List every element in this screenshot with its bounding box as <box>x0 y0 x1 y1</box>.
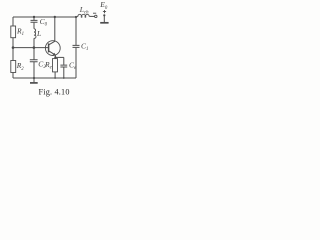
wire left rail middle <box>12 38 14 61</box>
wire right rail upper <box>75 17 77 45</box>
transistor Q1 emitter arrow <box>53 53 56 56</box>
junction node base-L <box>33 46 36 49</box>
supply ground bar <box>100 22 108 24</box>
wire top rail <box>13 16 76 18</box>
transistor Q1 base bar <box>48 43 50 52</box>
ground stub <box>33 78 35 82</box>
minus sign <box>93 12 96 14</box>
wire Re to bottom rail <box>54 72 56 78</box>
supply wire down <box>103 15 105 22</box>
capacitor C0 <box>31 20 38 22</box>
junction node C0 top <box>33 16 35 18</box>
capacitor Ce <box>60 65 67 67</box>
wire base <box>13 47 48 49</box>
ground bar <box>30 82 38 84</box>
resistor Re <box>53 59 58 72</box>
svg-text:L: L <box>36 29 41 38</box>
wire right rail lower <box>75 48 77 78</box>
svg-text:Fig. 4.10: Fig. 4.10 <box>39 87 70 96</box>
wire Ce branch upper <box>63 57 65 64</box>
junction node right rail top <box>75 16 77 18</box>
wire emitter to Re <box>54 57 56 58</box>
transistor Q1 emitter <box>49 51 56 58</box>
resistor R2 <box>11 61 16 73</box>
wire Ce to bottom rail <box>63 67 65 78</box>
plus sign <box>103 10 106 13</box>
wire bottom rail <box>13 77 76 79</box>
junction node emitter <box>54 56 56 58</box>
junction node Ce bottom <box>63 77 65 79</box>
wire choke to terminal <box>89 15 94 17</box>
wire emitter junction to Ce <box>55 56 64 58</box>
inductor Lch choke <box>77 14 90 17</box>
wire collector <box>49 17 55 45</box>
wire C0 to L <box>33 23 35 29</box>
wire C2 to bottom rail <box>33 62 35 78</box>
capacitor C2 <box>30 60 38 62</box>
terminal minus circle <box>95 15 97 17</box>
wire left rail lower <box>12 73 14 79</box>
resistor R1 <box>11 26 16 38</box>
supply terminal dot <box>103 14 105 16</box>
capacitor C1 <box>73 45 80 47</box>
junction node base-left <box>12 46 15 49</box>
wire left rail upper <box>12 17 14 26</box>
junction node Re bottom <box>54 77 56 79</box>
junction node collector top <box>54 16 56 18</box>
inductor L <box>34 29 36 39</box>
junction node C2 bottom <box>33 77 35 79</box>
wire base to C2 <box>33 48 35 60</box>
transistor Q1 circle <box>45 41 60 56</box>
wire L to base wire <box>33 38 35 47</box>
wire C0 branch top stub <box>33 17 35 20</box>
